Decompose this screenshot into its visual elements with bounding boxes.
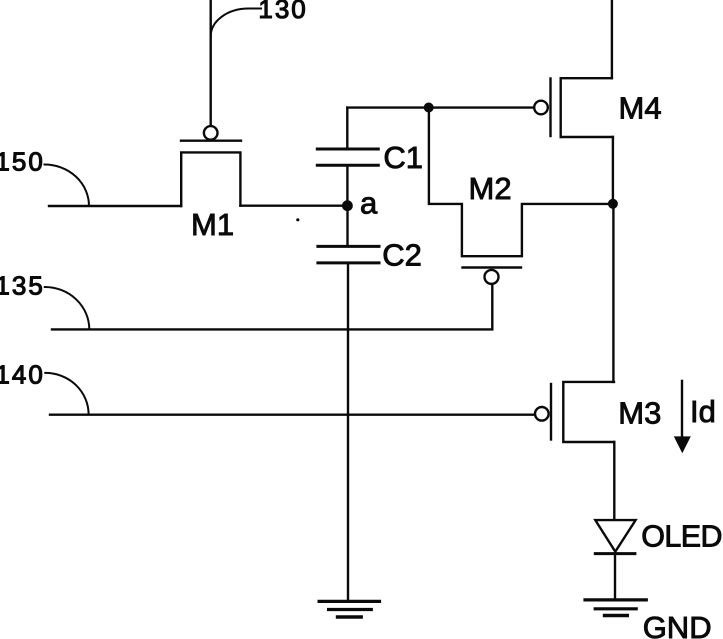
svg-text:C2: C2 (382, 238, 422, 273)
diode OLED (595, 520, 635, 599)
wire: M3 drain down to OLED (613, 442, 615, 520)
wire: M1 drain to node a (240, 204, 344, 206)
svg-text:M4: M4 (619, 90, 662, 125)
transistor M3 (535, 382, 614, 442)
svg-text:150: 150 (0, 147, 45, 177)
svg-text:OLED: OLED (641, 520, 722, 554)
wire: scan line 140 (50, 414, 535, 416)
wire: M4 source down to node (612, 137, 614, 204)
label 130 leader (211, 9, 261, 37)
wire: top node rail (C1 top to M4 gate) (347, 106, 534, 108)
capacitor C2 (318, 210, 379, 263)
svg-text:M2: M2 (469, 171, 512, 206)
transistor M4 (534, 78, 613, 137)
svg-text:130: 130 (258, 0, 307, 24)
label 140 leader (45, 373, 88, 415)
transistor M2 (429, 108, 613, 284)
svg-text:140: 140 (0, 360, 45, 390)
ground GND (585, 600, 646, 616)
node a (342, 200, 353, 211)
svg-text:135: 135 (0, 271, 45, 301)
wire: 130 data line vertical (209, 0, 211, 126)
wire: VDD rail top right (611, 0, 613, 78)
svg-text:GND: GND (643, 610, 712, 639)
wire: node a branch down to ground (347, 263, 349, 601)
transistor M1 (181, 126, 241, 206)
svg-text:a: a (360, 186, 378, 221)
wire: scan line 150 (49, 205, 181, 207)
wire: scan line 135 (52, 284, 492, 330)
svg-text:M1: M1 (191, 207, 234, 242)
current arrow Id (674, 381, 691, 453)
label 135 leader (45, 287, 90, 329)
capacitor C1 (317, 108, 378, 201)
node a' junction (424, 103, 434, 113)
svg-text:M3: M3 (618, 396, 661, 431)
ground (center) (319, 601, 379, 617)
wire: node down to M3 (612, 204, 614, 382)
svg-text:C1: C1 (383, 140, 423, 175)
node: right junction (608, 199, 618, 209)
svg-text:Id: Id (690, 394, 716, 429)
artifact speck (296, 218, 299, 221)
label 150 leader (45, 165, 90, 207)
